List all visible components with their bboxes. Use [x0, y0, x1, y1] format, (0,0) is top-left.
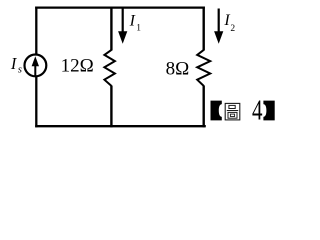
- wire: right branch lower segment: [202, 86, 204, 128]
- caption left lenticular bracket: [211, 101, 222, 121]
- wire: middle branch lower segment: [110, 86, 112, 128]
- wire: bottom rail: [35, 125, 206, 127]
- svg-text:8Ω: 8Ω: [166, 58, 190, 79]
- wire: left branch lower segment: [35, 76, 37, 127]
- caption right lenticular bracket: [263, 101, 274, 121]
- svg-text:1: 1: [136, 23, 141, 33]
- current arrow I2: [218, 9, 220, 34]
- wire: middle branch upper segment: [110, 7, 112, 51]
- svg-text:4: 4: [252, 96, 263, 127]
- wire: top rail: [35, 6, 205, 8]
- svg-text:I: I: [223, 12, 230, 29]
- current source arrow (points up): [34, 65, 36, 76]
- wire: right branch upper segment: [202, 7, 204, 51]
- svg-text:I: I: [129, 12, 136, 29]
- current source U1 circle: [25, 55, 47, 77]
- caption glyph 圖: [225, 103, 240, 120]
- resistor R2 8Ω zigzag: [197, 50, 210, 86]
- current arrow I1: [122, 9, 124, 34]
- svg-text:12Ω: 12Ω: [61, 56, 94, 77]
- resistor R1 12Ω zigzag: [104, 50, 115, 86]
- svg-text:s: s: [18, 64, 22, 75]
- wire: left branch upper segment: [35, 7, 37, 56]
- svg-text:2: 2: [230, 24, 235, 34]
